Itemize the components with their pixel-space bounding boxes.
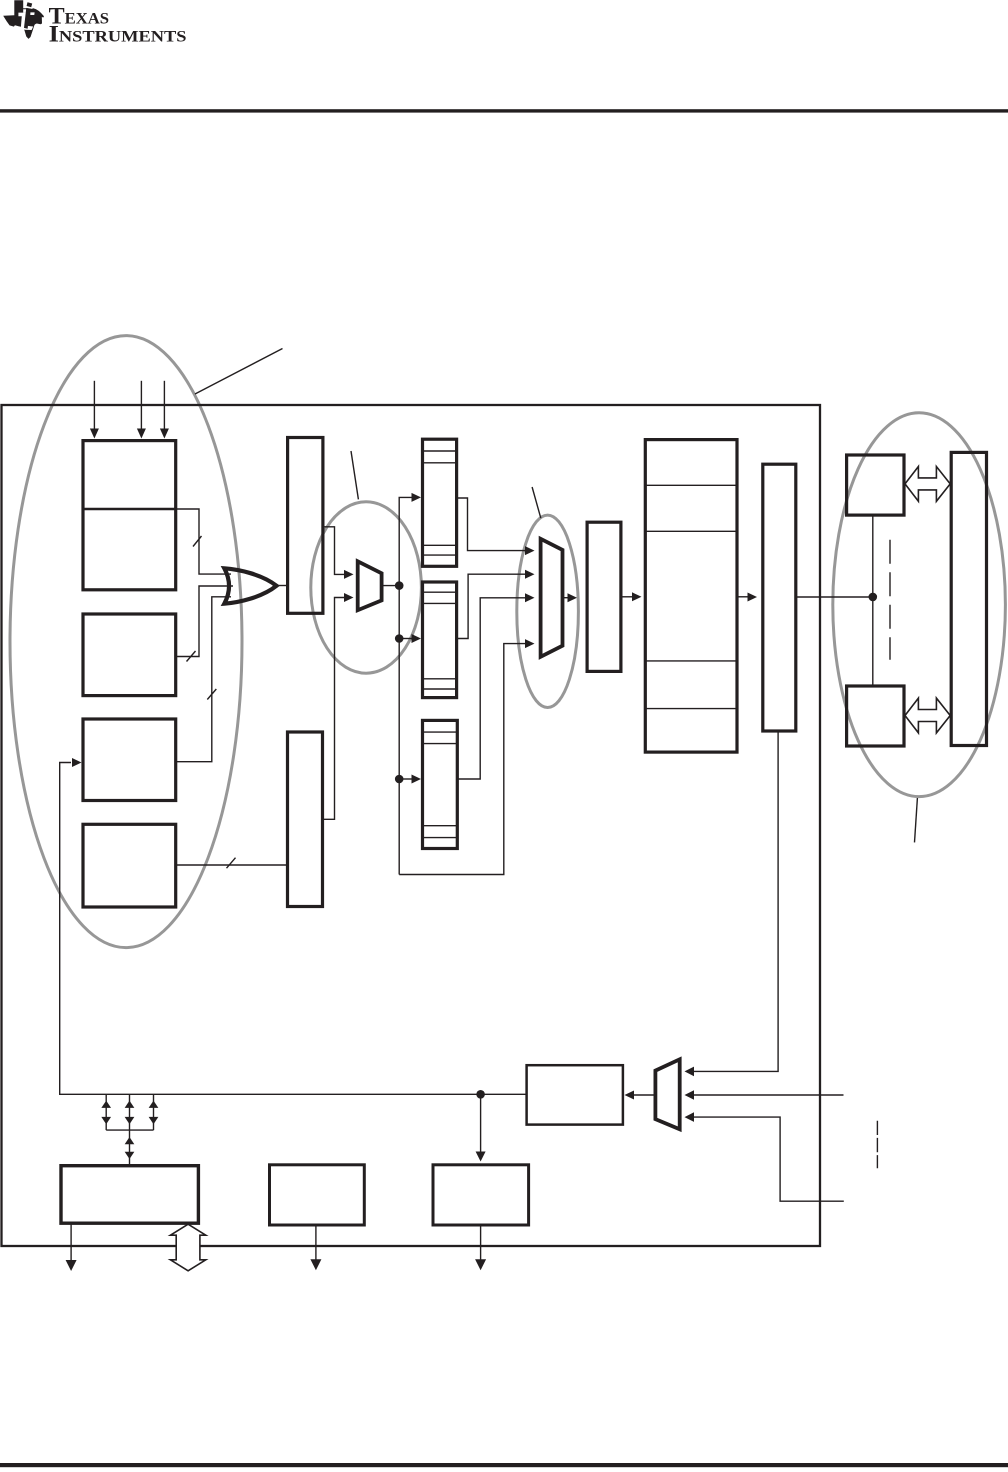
svg-text:Instruments: Instruments — [49, 22, 187, 47]
